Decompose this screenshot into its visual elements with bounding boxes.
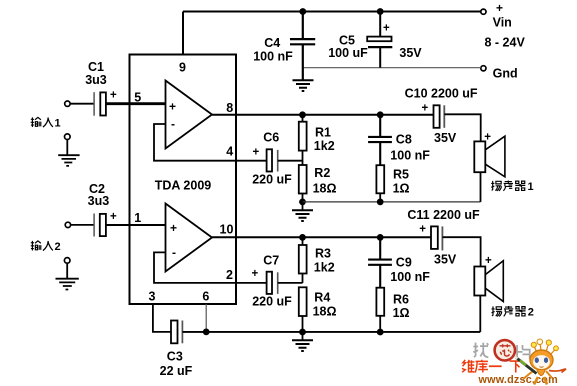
svg-text:6: 6 <box>202 290 209 304</box>
label 扬声器2 <box>492 306 534 319</box>
wire ground stem R2 <box>302 202 304 210</box>
svg-text:35V: 35V <box>399 46 422 60</box>
svg-text:+: + <box>110 90 117 102</box>
capacitor C1 <box>94 92 106 116</box>
svg-text:3u3: 3u3 <box>88 194 110 208</box>
svg-text:2: 2 <box>528 307 534 319</box>
node C9 top <box>377 234 384 241</box>
capacitor C6 <box>267 149 278 171</box>
svg-text:220 uF: 220 uF <box>252 173 292 187</box>
svg-text:35V: 35V <box>434 253 457 267</box>
svg-text:+: + <box>252 268 259 280</box>
ground input2 <box>56 279 79 290</box>
svg-text:R4: R4 <box>314 291 330 305</box>
svg-text:+: + <box>484 131 491 143</box>
svg-text:100 nF: 100 nF <box>253 50 293 64</box>
capacitor C10 <box>434 105 481 141</box>
node C8 top <box>377 111 384 118</box>
node junction C5 top <box>377 8 384 15</box>
watermark 找芯片 logo <box>473 340 529 360</box>
capacitor C9 <box>368 237 392 287</box>
speaker LS2 <box>474 261 503 302</box>
svg-text:C6: C6 <box>263 131 279 145</box>
svg-text:1Ω: 1Ω <box>393 306 410 320</box>
IC U1 TDA2009 box <box>130 55 237 305</box>
node junction C4 top <box>299 8 306 15</box>
svg-text:+: + <box>485 255 492 267</box>
svg-text:220 uF: 220 uF <box>252 295 292 309</box>
wire pin3 stub <box>153 304 171 332</box>
watermark 维库一下 <box>462 360 522 373</box>
svg-text:+: + <box>170 221 177 235</box>
wire channel1 bottom rail <box>303 201 481 203</box>
wire ground2 stem <box>66 263 68 278</box>
capacitor C11 <box>431 226 481 266</box>
svg-text:R3: R3 <box>315 247 331 261</box>
svg-text:R2: R2 <box>314 166 330 180</box>
svg-text:R6: R6 <box>393 292 409 306</box>
terminal input1 <box>65 101 70 106</box>
svg-text:+: + <box>496 1 503 15</box>
wire ground stem R4 <box>302 332 304 340</box>
node R1 top <box>299 111 306 118</box>
svg-text:R1: R1 <box>315 125 331 139</box>
capacitor C7 <box>267 272 278 294</box>
node R5 bottom <box>377 199 384 206</box>
svg-text:18Ω: 18Ω <box>313 305 337 319</box>
wire Vin top rail <box>183 11 481 13</box>
wire LS1 bottom <box>480 172 482 202</box>
svg-text:1k2: 1k2 <box>314 260 335 274</box>
ground below R2 <box>292 210 313 221</box>
resistor R5 <box>376 165 384 202</box>
label 输入1 <box>31 117 61 129</box>
resistor R2 <box>299 165 307 202</box>
svg-text:+: + <box>383 23 390 35</box>
svg-text:C1: C1 <box>88 60 104 74</box>
wire C6 to R1R2 node <box>278 160 303 162</box>
svg-text:+: + <box>110 211 117 223</box>
svg-text:C7: C7 <box>263 253 279 267</box>
svg-text:100 uF: 100 uF <box>328 46 368 60</box>
capacitor C5 <box>367 12 392 68</box>
resistor R6 <box>376 288 384 332</box>
wire input2 to C2 <box>71 224 94 226</box>
ground below R4 <box>292 340 313 351</box>
resistor R3 <box>299 237 307 283</box>
svg-text:-: - <box>171 117 175 131</box>
wire input1 to C1 <box>70 103 94 105</box>
wire ground1 stem <box>66 140 68 156</box>
wire pin5 <box>106 102 166 105</box>
svg-text:18Ω: 18Ω <box>313 182 337 196</box>
node R4 bottom <box>299 329 306 336</box>
terminal Vin <box>481 9 486 14</box>
wire C7 to R3R4 node <box>278 282 303 284</box>
wire feedback2 (pin2 loop) <box>154 252 267 283</box>
ground below C4 <box>293 80 314 91</box>
wire Gnd rail <box>303 67 481 69</box>
terminal input2 <box>65 222 70 227</box>
label 扬声器1 <box>491 181 533 194</box>
svg-text:C11 2200 uF: C11 2200 uF <box>407 208 480 222</box>
svg-text:Gnd: Gnd <box>493 67 518 81</box>
capacitor C2 <box>94 214 106 237</box>
svg-text:+: + <box>419 224 426 236</box>
op-amp U1B <box>166 204 213 272</box>
wire pin6 stub <box>205 304 207 332</box>
wire LS2 bottom <box>479 296 481 332</box>
svg-text:C9: C9 <box>396 255 412 269</box>
svg-text:+: + <box>169 100 176 114</box>
svg-text:+: + <box>422 102 429 114</box>
svg-text:1k2: 1k2 <box>314 139 335 153</box>
svg-text:C3: C3 <box>167 349 183 363</box>
svg-text:100 nF: 100 nF <box>390 270 430 284</box>
resistor R4 <box>299 287 307 332</box>
svg-text:R5: R5 <box>393 167 409 181</box>
svg-text:9: 9 <box>179 61 186 75</box>
label 输入2 <box>31 241 61 253</box>
svg-text:1Ω: 1Ω <box>393 182 410 196</box>
svg-text:35V: 35V <box>434 131 457 145</box>
speaker LS1 <box>474 136 505 177</box>
terminal ground1 circle <box>65 134 71 140</box>
ground input1 <box>58 155 79 166</box>
svg-text:Vin: Vin <box>493 16 512 30</box>
svg-text:1: 1 <box>55 118 61 130</box>
svg-text:1: 1 <box>134 211 141 225</box>
svg-text:1: 1 <box>528 181 534 193</box>
svg-text:10: 10 <box>220 222 234 236</box>
svg-text:C8: C8 <box>396 132 412 146</box>
watermark mascot <box>515 339 567 385</box>
op-amp U1A <box>166 81 213 149</box>
svg-text:-: - <box>172 246 176 260</box>
terminal ground2 circle <box>64 258 70 264</box>
wire pin9 vertical <box>182 12 184 55</box>
wire feedback1 (pin4 loop) <box>154 124 267 161</box>
svg-text:3u3: 3u3 <box>85 73 107 87</box>
terminal Gnd <box>481 66 486 71</box>
svg-text:8 - 24V: 8 - 24V <box>485 36 526 50</box>
node R2 bottom <box>299 199 306 206</box>
svg-text:2: 2 <box>226 268 233 282</box>
wire pin10 row <box>212 236 431 238</box>
svg-text:2: 2 <box>55 241 61 253</box>
svg-text:3: 3 <box>149 290 156 304</box>
svg-text:+: + <box>253 147 260 159</box>
node R3 top <box>299 234 306 241</box>
capacitor C8 <box>368 115 392 165</box>
svg-text:TDA 2009: TDA 2009 <box>155 179 212 193</box>
svg-text:C10 2200 uF: C10 2200 uF <box>405 86 478 100</box>
capacitor C3 <box>171 321 182 344</box>
svg-text:4: 4 <box>226 145 233 159</box>
svg-text:100 nF: 100 nF <box>390 148 430 162</box>
svg-text:22 uF: 22 uF <box>160 364 193 378</box>
wire pin1 <box>106 224 166 226</box>
node C3 right / pin6 <box>203 329 210 336</box>
wire pin8 row <box>212 114 434 116</box>
svg-text:C4: C4 <box>264 36 280 50</box>
capacitor C4 <box>290 12 315 80</box>
resistor R1 <box>299 115 307 165</box>
svg-text:8: 8 <box>226 101 233 115</box>
node R6 bottom <box>377 329 384 336</box>
wire channel2 bottom rail <box>182 331 480 333</box>
